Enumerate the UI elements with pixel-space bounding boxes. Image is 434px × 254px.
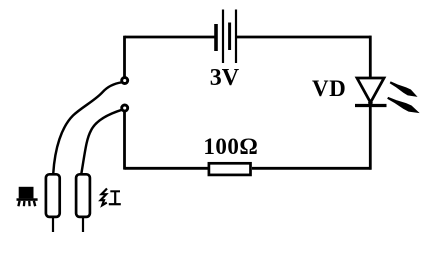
wire left side bottom bbox=[123, 112, 126, 170]
wire right side top (to LED anode) bbox=[369, 36, 372, 79]
battery B1 negative plate 1 bbox=[214, 24, 218, 51]
svg-text:100Ω: 100Ω bbox=[203, 134, 258, 159]
terminal node A (upper, open circle) bbox=[122, 78, 128, 84]
svg-text:3V: 3V bbox=[210, 65, 240, 91]
LED light emission arrow 1 bbox=[390, 82, 416, 96]
wire top-left segment bbox=[125, 36, 217, 39]
wire right side bottom bbox=[369, 106, 372, 170]
LED junction dot at apex bbox=[368, 101, 373, 106]
LED VD triangle (anode) bbox=[357, 78, 384, 103]
red probe tip bbox=[82, 218, 84, 233]
battery B1 negative plate 2 bbox=[228, 23, 231, 51]
wire bottom-right segment bbox=[252, 167, 372, 170]
battery B1 positive plate 1 bbox=[222, 10, 224, 64]
label hei (black) glyph, hand drawn bbox=[17, 187, 38, 206]
wire top-right segment bbox=[237, 36, 372, 39]
LED VD cathode bar bbox=[355, 104, 387, 107]
battery B1 positive plate 2 bbox=[235, 10, 237, 64]
terminal node B (lower, open circle) bbox=[122, 105, 128, 111]
label hong (red) glyph, hand drawn bbox=[101, 189, 121, 206]
resistor R1 box bbox=[209, 163, 251, 175]
black probe body bbox=[46, 174, 60, 217]
red probe body bbox=[76, 174, 90, 217]
wire left side top bbox=[123, 36, 126, 77]
wire red probe lead (curved) bbox=[81, 110, 122, 174]
black probe tip bbox=[52, 218, 54, 233]
wire black probe lead (curved) bbox=[53, 82, 122, 174]
wire bottom-left segment bbox=[125, 167, 209, 170]
svg-text:VD: VD bbox=[312, 76, 346, 101]
LED light emission arrow 2 bbox=[388, 97, 419, 112]
